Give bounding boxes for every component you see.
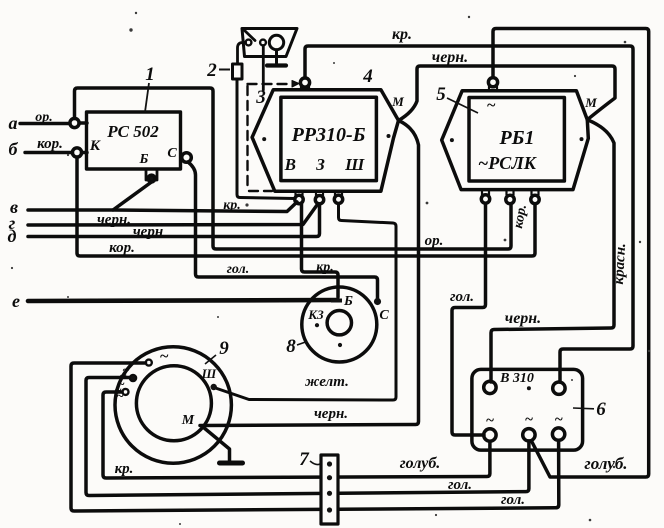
svg-text:1: 1 <box>145 64 155 85</box>
ground of horn switch <box>267 50 286 66</box>
fuse F1 (component 2) <box>233 43 246 80</box>
svg-text:6: 6 <box>596 399 606 420</box>
svg-text:~: ~ <box>554 412 563 428</box>
RR310B top terminal <box>300 78 309 90</box>
svg-text:голуб.: голуб. <box>584 454 627 473</box>
terminal a (top-left input of RS502) <box>70 118 87 127</box>
svg-text:е: е <box>12 291 20 311</box>
pointer of 5 <box>447 98 478 113</box>
svg-text:РР310-Б: РР310-Б <box>291 124 366 146</box>
wire gol. mid: V310 bottom2 down-left long run to generator phase 2 <box>86 378 529 496</box>
V310 top-right terminal <box>553 382 565 394</box>
svg-text:черн: черн <box>133 224 163 240</box>
wire kor. bus: K terminal down then right to RB1 pin3 <box>77 157 535 256</box>
svg-text:2: 2 <box>206 60 217 81</box>
V310 bottom terminal 1 <box>484 429 496 441</box>
pointer of 2 <box>219 69 230 71</box>
RR310B bottom terminal Z (pin 2) <box>315 191 323 204</box>
generator (component 9) outer stator circle <box>115 347 231 463</box>
pointer of 6 <box>573 407 594 410</box>
svg-text:черн.: черн. <box>314 406 348 422</box>
svg-text:гол.: гол. <box>450 289 474 305</box>
relay RS502 U1 box <box>87 112 181 169</box>
generator M wire to ground <box>203 427 243 463</box>
wire a loop up-over: a terminal to orange bus <box>75 88 512 249</box>
dot under V310 <box>527 386 531 390</box>
svg-text:кр.: кр. <box>223 198 241 213</box>
wire RB1 top terminal loop to goluby bottom right <box>493 29 649 478</box>
svg-text:черн.: черн. <box>505 310 541 327</box>
generator inner rotor circle <box>136 366 211 441</box>
wire C: RS502 C terminal down, right, to C of magneto <box>188 162 378 299</box>
svg-text:кр.: кр. <box>392 26 412 43</box>
magneto terminal B junction blob <box>331 299 342 303</box>
svg-text:К: К <box>89 138 101 154</box>
RB1 top terminal <box>488 78 497 91</box>
svg-text:РБ1: РБ1 <box>499 127 535 149</box>
terminal K of RS502 <box>72 148 87 157</box>
wire v (chern.) horizontal input <box>28 182 152 210</box>
svg-text:Б: Б <box>343 294 353 309</box>
svg-text:черн.: черн. <box>97 212 131 228</box>
svg-text:ор.: ор. <box>425 233 444 249</box>
RB1 bottom terminal 1 <box>481 190 489 204</box>
svg-text:а: а <box>9 113 18 133</box>
svg-text:~: ~ <box>486 97 495 114</box>
svg-text:кр.: кр. <box>316 260 334 275</box>
svg-text:~РСЛК: ~РСЛК <box>478 153 538 173</box>
dashed wire to RR310B top terminal <box>248 84 293 191</box>
svg-text:3: 3 <box>255 87 266 108</box>
wire M of RR310B up to chern bus and down to RB1 M <box>399 66 616 121</box>
relay RB1 (component 5) hexagon body <box>442 91 589 190</box>
wire RB1 M down right side (chern.) to rectifier top-left <box>491 120 614 382</box>
generator phase terminal 2 <box>130 375 136 381</box>
RR310B bottom terminal V (pin 1) <box>295 191 303 204</box>
svg-text:5: 5 <box>436 84 446 105</box>
wire d (chern.) horizontal then up to terminal Z <box>28 204 320 237</box>
wire b (kor.) horizontal input <box>25 151 73 154</box>
svg-text:Б: Б <box>139 152 149 167</box>
svg-text:гол.: гол. <box>227 262 250 277</box>
wire g (chern.) horizontal to terminal Z of RR310B <box>28 205 317 225</box>
svg-text:д: д <box>8 226 17 246</box>
wire fuse bottom to terminal V of RR310B <box>237 79 295 199</box>
svg-text:М: М <box>181 413 195 428</box>
svg-text:гол.: гол. <box>501 492 525 508</box>
V310 bottom terminal 2 <box>523 429 535 441</box>
wire a (or.) horizontal input <box>20 122 70 125</box>
svg-text:С: С <box>167 146 177 161</box>
RB1 bottom terminal 3 <box>531 190 539 204</box>
rectifier V310 (component 6) body <box>472 369 583 450</box>
horn switch (component 3) body <box>242 29 297 57</box>
svg-text:М: М <box>391 94 404 109</box>
regulator RR310B (component 4) hexagon body <box>252 90 398 192</box>
wire golub. left: V310 bottom1 down-left long run to generator phase 3 <box>103 392 490 478</box>
svg-text:красн.: красн. <box>611 243 629 285</box>
wire kr.: terminal V of RR310B down then right to B of magneto <box>302 204 339 297</box>
svg-text:Ш: Ш <box>201 366 217 381</box>
svg-text:М: М <box>584 95 597 110</box>
V310 top-left terminal <box>484 381 496 393</box>
svg-text:ор.: ор. <box>35 110 53 125</box>
svg-text:голуб.: голуб. <box>400 455 441 472</box>
generator Sh terminal <box>211 384 217 390</box>
wire from horn contact down (pointer 3 wire) <box>262 46 265 91</box>
wire kr. top: RR310B top terminal up and across to right side down to rectifier <box>305 46 633 382</box>
svg-text:В З Ш: В З Ш <box>284 155 373 174</box>
svg-text:РС 502: РС 502 <box>106 122 159 141</box>
magneto breaker (component 8) body <box>302 287 377 362</box>
svg-text:кор.: кор. <box>109 240 135 256</box>
svg-text:~: ~ <box>116 388 124 403</box>
generator phase terminal 1 <box>146 360 152 366</box>
wire gol.: RB1 pin1 down, left, down to rectifier bottom-left terminal <box>452 204 486 436</box>
svg-text:9: 9 <box>219 338 229 359</box>
svg-text:8: 8 <box>286 336 296 357</box>
svg-text:гол.: гол. <box>448 477 472 493</box>
wire gol. outer: V310 bottom3 down-left long run to generator phase 1 <box>71 363 559 511</box>
svg-text:С: С <box>379 308 389 323</box>
svg-text:кор.: кор. <box>37 136 63 152</box>
connector block (component 7) <box>321 455 338 524</box>
RB1 bottom terminal 2 <box>506 190 514 204</box>
wire M of RR310B down to generator M (chern.) <box>200 121 419 426</box>
pointer of 1 <box>145 83 149 112</box>
arrowhead of dashed wire <box>292 81 299 88</box>
wire Sh of RR310B down right and down to generator Sh (zhelt.) <box>214 204 396 400</box>
pointer of 7 <box>310 461 320 465</box>
terminal C of RS502 <box>181 153 191 163</box>
svg-text:желт.: желт. <box>305 374 349 390</box>
V310 bottom terminal 3 <box>552 428 564 440</box>
svg-text:~: ~ <box>159 348 168 365</box>
svg-text:~: ~ <box>486 413 495 429</box>
pointer of 8 <box>297 342 307 346</box>
wire e (thick) to terminal B of magneto <box>28 300 338 301</box>
svg-text:КЗ: КЗ <box>307 307 324 322</box>
svg-text:~: ~ <box>525 412 534 428</box>
wire v continues to terminal V of RR310B <box>113 202 297 212</box>
pointer of 9 <box>205 355 216 364</box>
RR310B bottom terminal Sh (pin 3) <box>334 191 342 203</box>
svg-text:4: 4 <box>362 66 373 87</box>
svg-text:б: б <box>9 139 19 159</box>
svg-text:В 310: В 310 <box>499 371 534 386</box>
svg-text:кр.: кр. <box>115 461 134 477</box>
magneto terminal C dot <box>374 298 381 305</box>
terminal B (bottom) of RS502 <box>146 169 157 182</box>
svg-text:7: 7 <box>299 449 310 470</box>
generator phase terminal 3 <box>123 389 129 395</box>
svg-text:черн.: черн. <box>432 49 468 66</box>
